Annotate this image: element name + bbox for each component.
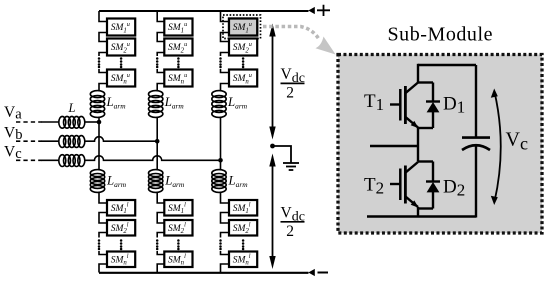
svg-text:SM1l: SM1l (168, 201, 186, 215)
svg-text:Sub-Module: Sub-Module (388, 24, 494, 46)
negative DC bus (99, 272, 309, 274)
svg-text:SM2l: SM2l (168, 221, 186, 235)
submodule SM2l leg C (229, 220, 257, 236)
submodule SMnu leg C (229, 70, 257, 87)
wire leg C midsection (220, 118, 222, 170)
wire leg A: SM1u to SM2u (99, 33, 107, 42)
ground symbol (283, 163, 299, 170)
submodule SM1u leg A (107, 19, 135, 36)
dimension arrow upper Vdc/2 (269, 24, 275, 140)
positive DC bus (99, 10, 309, 12)
svg-text:Vb: Vb (4, 125, 22, 143)
svg-text:SMnl: SMnl (168, 253, 186, 267)
submodule SM2u leg A (107, 39, 135, 56)
svg-text:D2: D2 (443, 176, 465, 199)
transistor T2 (IGBT) (390, 162, 419, 208)
wire phase b to inductor (41, 140, 59, 142)
submodule SMnu leg B (164, 70, 192, 87)
arm inductor Larm leg B upper (149, 91, 163, 118)
dashed lead phase a (16, 121, 42, 123)
wire AC terminal stub (370, 145, 418, 147)
node phase A junction (97, 120, 102, 125)
svg-text:SM2l: SM2l (233, 221, 251, 235)
ellipsis dots leg B lower arm (156, 239, 180, 250)
submodule SM1u leg C (229, 19, 257, 36)
wire leg B: SM1u to SM2u (157, 33, 164, 42)
wire leg C: SMnu to arm inductor (221, 84, 230, 91)
submodule SM1l leg A (107, 200, 135, 216)
transistor T1 (IGBT) (390, 83, 419, 129)
capacitor C submodule (462, 65, 490, 218)
svg-text:2: 2 (286, 84, 294, 101)
wire leg A: SMnu to arm inductor (99, 84, 107, 91)
callout dashed arrow from SM1u leg C to Sub-Module panel (263, 27, 336, 55)
ellipsis dots leg C lower arm (219, 239, 244, 250)
arm inductor Larm leg C lower (212, 170, 226, 193)
node phase C junction (218, 158, 223, 163)
svg-text:SM2l: SM2l (111, 221, 129, 235)
node phase B junction (155, 139, 160, 144)
wire leg A midsection (98, 118, 100, 170)
submodule SM1l leg C (229, 200, 257, 216)
wire phase c with crossover hops at legs A and B (85, 156, 221, 161)
node DC midpoint (270, 144, 275, 149)
wire leg C: SM1u to SM2u (221, 33, 230, 42)
wire leg B: SM2u down stub (157, 53, 164, 57)
submodule SM2u leg B (164, 39, 192, 56)
ellipsis dots leg B upper arm (156, 57, 180, 68)
wire leg A upper: bus to SM1u (99, 11, 107, 22)
highlight fill for selected submodule SM1u leg C (229, 19, 257, 36)
label Vdc/2 lower (281, 205, 305, 240)
dashed lead phase c (16, 159, 42, 161)
submodule SM2u leg C (229, 39, 257, 56)
ellipsis dots leg C upper arm (219, 57, 244, 68)
label Vdc/2 upper (281, 66, 305, 101)
phase inductor L phase a (59, 116, 85, 128)
arm inductor Larm leg A lower (90, 170, 104, 193)
submodule SM1l leg B (164, 200, 192, 216)
wire leg B lower: inductor to SM1l (157, 193, 164, 204)
svg-text:2: 2 (286, 223, 294, 240)
wire T2 emitter to negative rail (417, 207, 419, 217)
wire phase a to leg A node (85, 121, 99, 123)
svg-text:T2: T2 (364, 174, 384, 197)
svg-text:L: L (68, 101, 76, 115)
wire leg A lower: inductor to SM1l (99, 193, 107, 204)
svg-text:SMnl: SMnl (111, 253, 129, 267)
wire collector drop T1 (417, 64, 419, 83)
submodule SMnl leg C (229, 252, 257, 268)
wire leg B midsection (156, 118, 158, 170)
svg-text:SM1l: SM1l (111, 201, 129, 215)
svg-text:T1: T1 (364, 91, 384, 114)
wire leg B: SM1l to SM2l lower (157, 213, 164, 224)
wire midpoint to ground (273, 146, 292, 163)
wire leg A: SM2u down stub (99, 53, 107, 57)
submodule SM2l leg A (107, 220, 135, 236)
Vc measurement arc arrow (491, 89, 501, 206)
wire leg A: to SMnu (99, 69, 107, 73)
dimension arrow lower Vdc/2 (269, 154, 275, 270)
negative bus arrowhead (308, 269, 315, 276)
phase inductor L phase c (59, 155, 85, 167)
ellipsis dots leg A lower arm (98, 239, 123, 250)
wire leg B: to SMnl lower (157, 251, 164, 255)
svg-text:Vc: Vc (4, 144, 22, 162)
wire positive rail of submodule (418, 64, 476, 66)
dashed lead phase b (16, 140, 42, 142)
arm inductor Larm leg C upper (212, 91, 226, 118)
wire leg A: SMnl to negative bus (99, 264, 107, 273)
svg-text:D1: D1 (443, 94, 465, 117)
wire leg A: SM1l to SM2l lower (99, 213, 107, 224)
plus terminal label (317, 5, 330, 16)
wire leg A: SM2l down stub lower (99, 233, 107, 238)
submodule SM2l leg B (164, 220, 192, 236)
svg-text:Va: Va (4, 104, 22, 122)
arm inductor Larm leg A upper (90, 91, 104, 118)
wire leg B upper: bus to SM1u (157, 11, 164, 22)
wire negative rail of submodule (367, 215, 476, 217)
wire leg C: to SMnl lower (221, 251, 230, 255)
ellipsis dots leg A upper arm (98, 57, 123, 68)
wire phase c to inductor (41, 159, 59, 161)
submodule SMnl leg B (164, 252, 192, 268)
phase inductor L phase b (59, 136, 85, 148)
diode D2 (418, 162, 440, 209)
svg-text:SM1l: SM1l (233, 201, 251, 215)
wire leg C: SM1l to SM2l lower (221, 213, 230, 224)
wire leg C: SM2u down stub (221, 53, 230, 57)
selection dotted box around SM1u leg C (223, 15, 261, 39)
Sub-Module panel box (338, 55, 542, 234)
wire leg B: SMnu to arm inductor (157, 84, 164, 91)
wire leg C lower: inductor to SM1l (221, 193, 230, 204)
minus terminal label (318, 272, 329, 274)
wire leg A: to SMnl lower (99, 251, 107, 255)
wire leg B: SMnl to negative bus (157, 264, 164, 273)
wire phase a to inductor (41, 121, 59, 123)
positive bus arrowhead (308, 7, 315, 14)
diode D1 (418, 83, 440, 129)
wire leg C: to SMnu (221, 69, 230, 73)
wire leg C: SM2l down stub lower (221, 233, 230, 238)
wire leg C upper: bus to SM1u (221, 11, 230, 22)
wire leg B: SM2l down stub lower (157, 233, 164, 238)
submodule SM1u leg B (164, 19, 192, 36)
submodule SMnu leg A (107, 70, 135, 87)
wire leg B: to SMnu (157, 69, 164, 73)
wire T1 emitter to midpoint (417, 128, 419, 162)
submodule SMnl leg A (107, 252, 135, 268)
wire phase b with crossover hop at leg A (85, 137, 157, 142)
svg-text:SMnl: SMnl (233, 253, 251, 267)
arm inductor Larm leg B lower (149, 170, 163, 193)
wire leg C: SMnl to negative bus (221, 264, 230, 273)
